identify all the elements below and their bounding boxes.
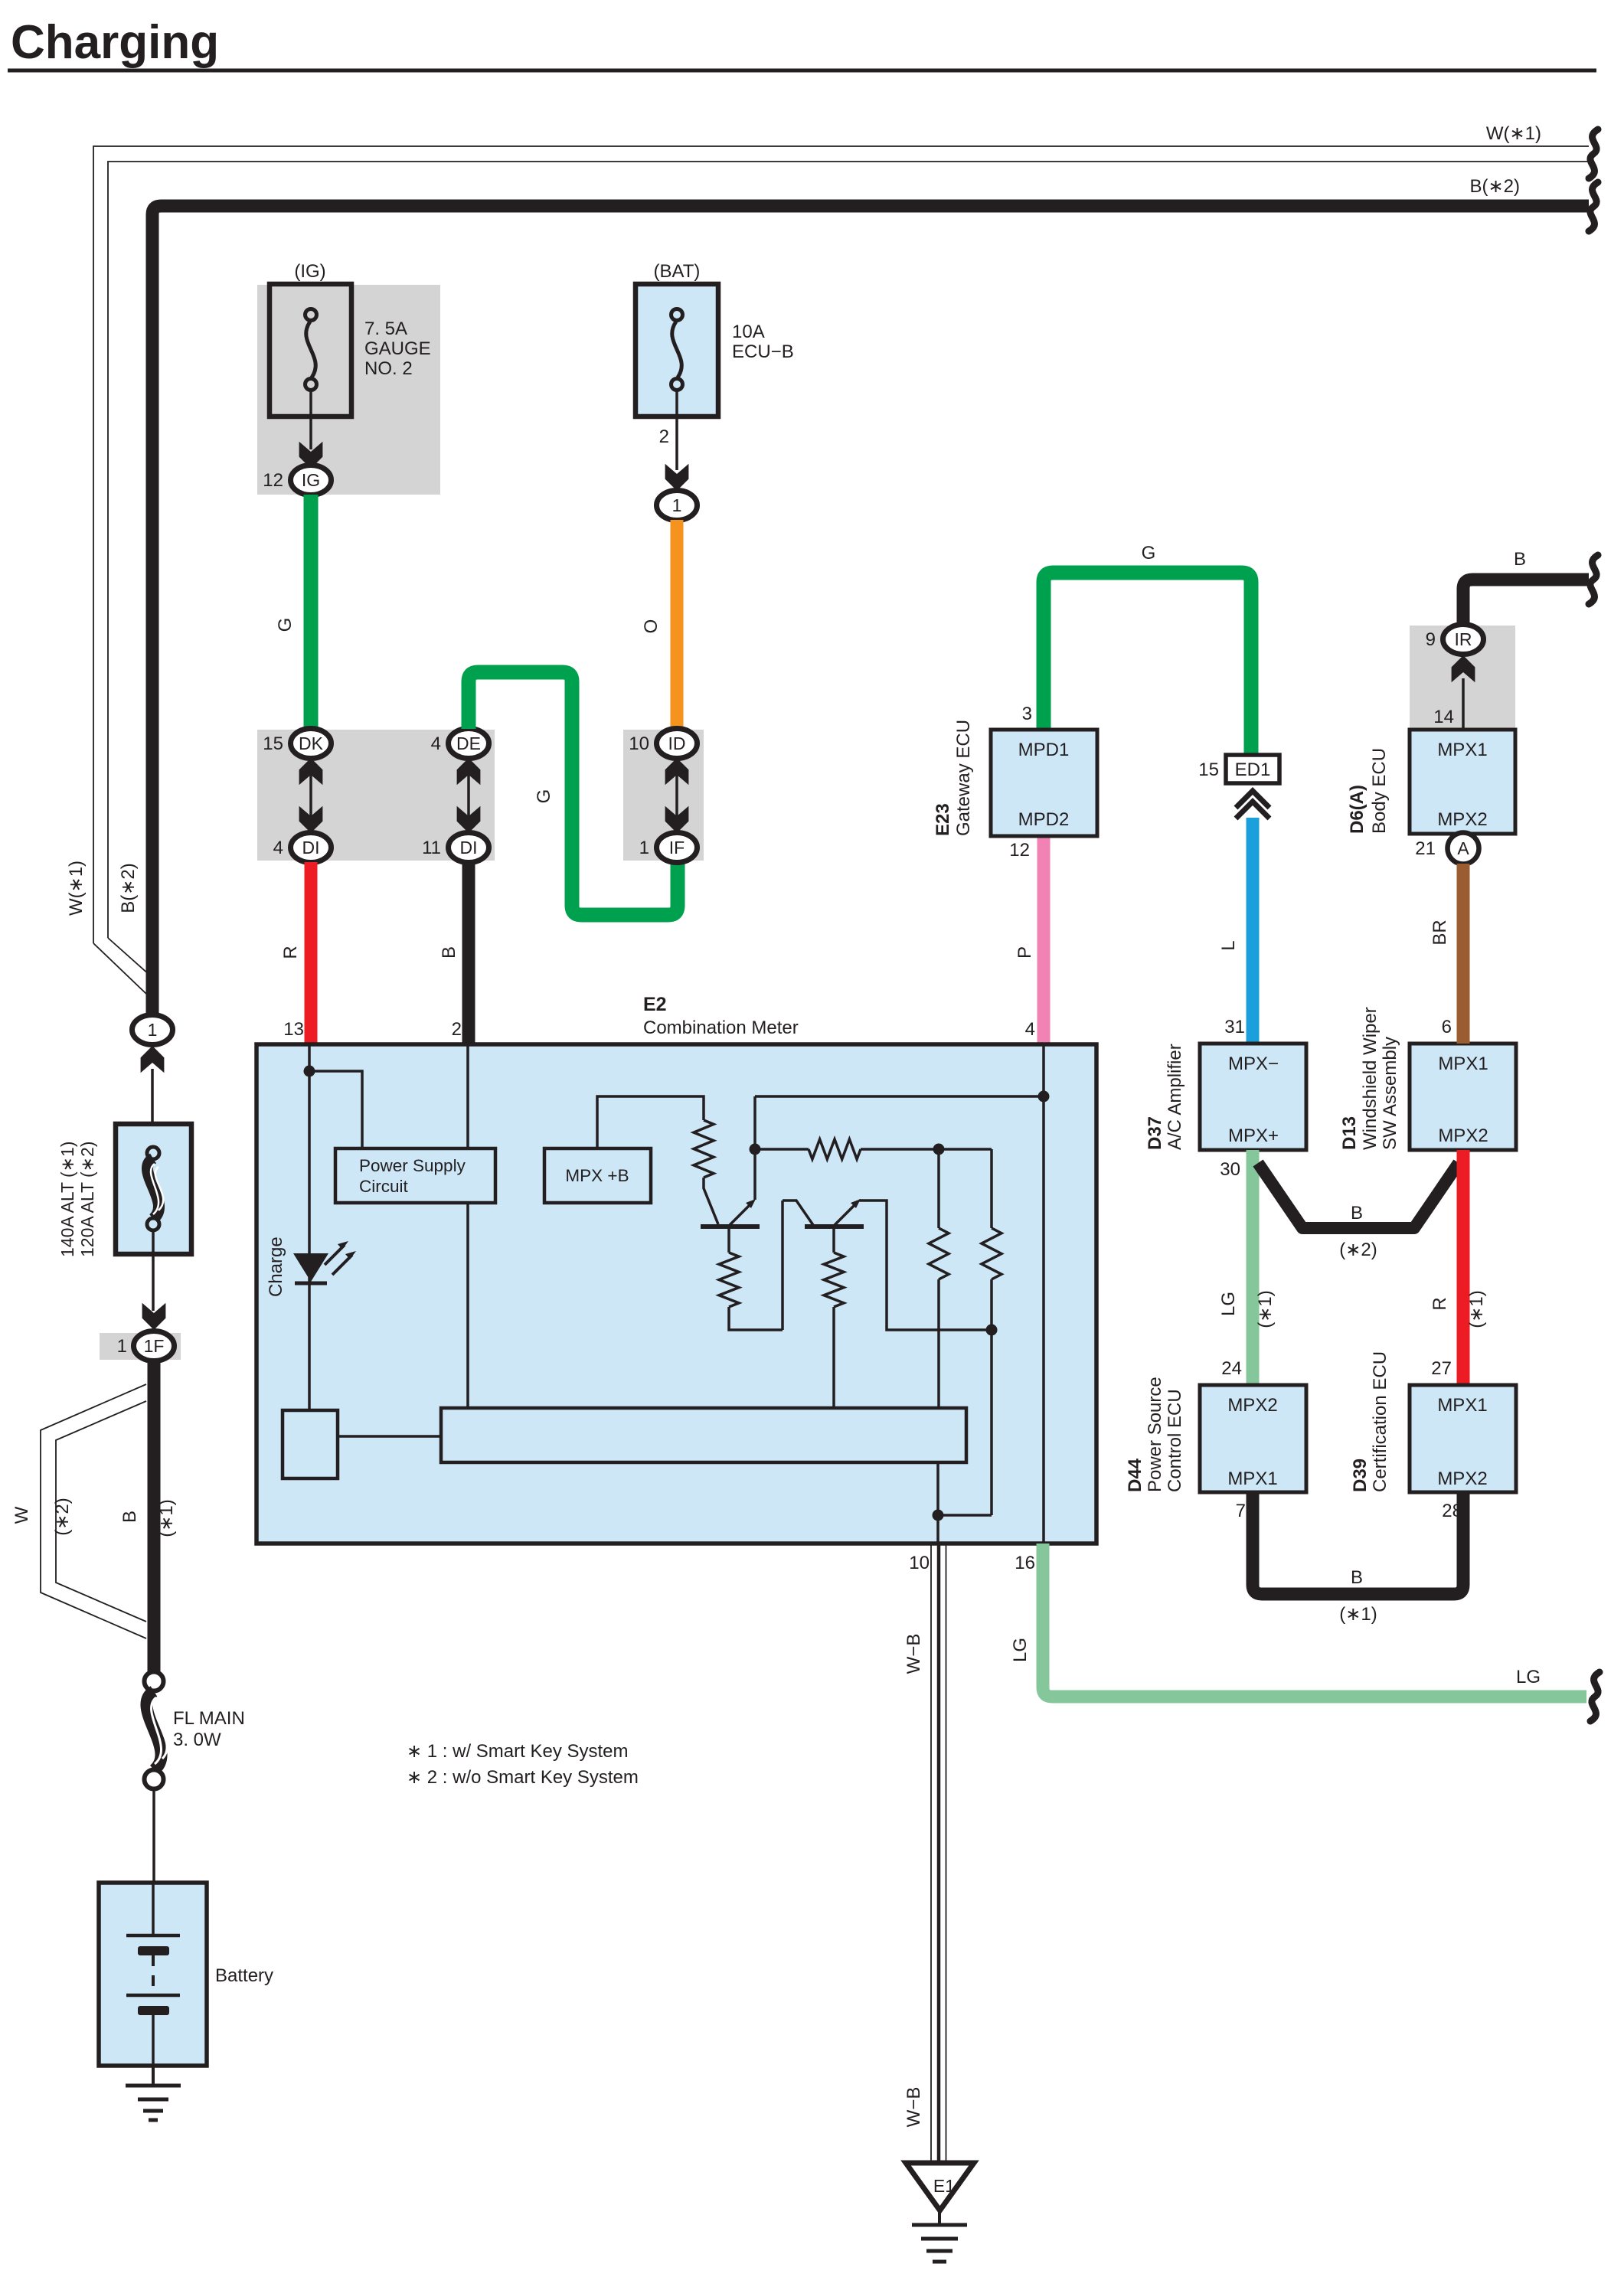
connector 9 IR — [1443, 625, 1484, 655]
battery box — [99, 1883, 207, 2066]
wire R4 to bottom box — [937, 1279, 940, 1408]
wire R red DI to E2 pin13 — [305, 862, 318, 1044]
wire ALT to 1F — [152, 1230, 155, 1311]
gray band 1F connector — [100, 1333, 181, 1360]
gray band ID/IF connector — [623, 730, 704, 861]
svg-text:B: B — [1514, 549, 1526, 570]
resistor R2 — [809, 1139, 861, 1159]
svg-text:NO. 2: NO. 2 — [364, 358, 413, 379]
svg-text:L: L — [1218, 940, 1239, 950]
junction pin10 node — [933, 1510, 944, 1521]
fusible link FL MAIN — [146, 1691, 161, 1770]
battery plate long 2 — [126, 1994, 180, 1998]
svg-text:13: 13 — [283, 1019, 304, 1040]
svg-text:10A: 10A — [732, 322, 765, 342]
wire W(*2) bypass outer — [41, 1384, 146, 1638]
wire B(*1) D44 to D39 — [1253, 1492, 1463, 1594]
svg-text:R: R — [280, 946, 301, 959]
svg-text:Charge: Charge — [266, 1236, 286, 1297]
svg-text:(∗2): (∗2) — [1339, 1240, 1377, 1260]
svg-text:27: 27 — [1431, 1358, 1452, 1379]
break squiggle W(*1) — [1589, 129, 1598, 178]
svg-text:1: 1 — [672, 495, 682, 515]
svg-text:ECU−B: ECU−B — [732, 341, 794, 362]
battery plate long 1 — [126, 1934, 180, 1938]
connector 1 IF — [657, 833, 698, 863]
svg-text:24: 24 — [1221, 1358, 1242, 1379]
switch D13 Windshield Wiper SW box — [1410, 1044, 1516, 1150]
svg-text:15: 15 — [263, 733, 283, 754]
wire node to R5 corner — [939, 1148, 992, 1151]
ground E1 — [906, 2163, 974, 2210]
transistor Q2 emitter — [835, 1203, 857, 1225]
ECU E23 Gateway ECU box — [991, 730, 1097, 836]
wire W(*1) inner line — [108, 162, 1589, 938]
svg-text:30: 30 — [1220, 1159, 1240, 1180]
gray band DK/DE/DI connector — [257, 730, 495, 861]
arrow up DK — [299, 758, 323, 785]
wire E1 to ground — [938, 2210, 941, 2224]
chevron shield lower — [1236, 802, 1269, 818]
svg-text:1: 1 — [148, 1020, 158, 1040]
block Power Supply Circuit — [335, 1148, 495, 1203]
svg-text:W: W — [11, 1506, 32, 1524]
connector circle bottom FL MAIN — [145, 1770, 164, 1789]
ECU D37 A/C Amplifier box — [1200, 1044, 1306, 1150]
svg-text:DI: DI — [460, 838, 478, 858]
svg-text:10: 10 — [909, 1553, 930, 1573]
wire W-B right outline — [946, 1544, 947, 2163]
svg-text:Circuit: Circuit — [359, 1177, 409, 1196]
svg-text:MPD1: MPD1 — [1018, 740, 1070, 760]
gray band IR connector — [1410, 626, 1515, 730]
connector 1 1F — [134, 1331, 175, 1361]
svg-text:MPX2: MPX2 — [1438, 1125, 1488, 1146]
svg-text:(∗1): (∗1) — [1466, 1290, 1487, 1328]
svg-text:SW Assembly: SW Assembly — [1380, 1037, 1400, 1150]
gray band IG fuse area — [257, 285, 440, 495]
svg-text:∗ 2 : w/o Smart Key System: ∗ 2 : w/o Smart Key System — [407, 1767, 639, 1788]
wire W-B left outline — [930, 1544, 932, 2163]
LED arrow 1 — [325, 1245, 345, 1265]
wire P pink E23 to E2 pin4 — [1037, 836, 1051, 1044]
wire pin2 internal — [466, 1044, 469, 1408]
wire B(*2) D37 to D13 — [1258, 1163, 1459, 1228]
connector 21 A — [1448, 833, 1479, 864]
resistor R4 — [929, 1228, 949, 1279]
junction Q1 emitter node — [750, 1144, 761, 1155]
svg-text:B: B — [119, 1511, 140, 1523]
svg-text:LG: LG — [1516, 1667, 1541, 1687]
svg-text:D39: D39 — [1350, 1459, 1371, 1492]
wire B black DI to E2 pin2 — [462, 862, 475, 1044]
junction R2 node — [933, 1144, 945, 1155]
svg-text:G: G — [275, 618, 296, 632]
ECU D44 Power Source Control box — [1200, 1385, 1306, 1492]
svg-text:MPX +B: MPX +B — [565, 1166, 629, 1185]
svg-text:MPX1: MPX1 — [1438, 1054, 1488, 1074]
connector circle top FL MAIN — [145, 1672, 164, 1691]
svg-text:A/C Amplifier: A/C Amplifier — [1165, 1044, 1185, 1150]
wire R2 to node — [861, 1148, 939, 1151]
wire W(*1) merge diagonal outer — [93, 943, 146, 994]
svg-text:Control ECU: Control ECU — [1165, 1389, 1185, 1492]
svg-text:E1: E1 — [933, 2176, 955, 2196]
wire into battery — [152, 1883, 155, 1936]
wire node to R2 — [755, 1148, 809, 1151]
svg-text:LG: LG — [1010, 1638, 1031, 1662]
resistor R5 — [982, 1228, 1002, 1279]
fuse IG element — [306, 309, 317, 321]
resistor R6 Q2 base — [824, 1253, 844, 1307]
break squiggle B(*2) — [1589, 182, 1598, 231]
block MPX +B — [544, 1148, 651, 1203]
wire long box to pin10 — [936, 1462, 939, 1544]
wire small box to long box — [338, 1435, 441, 1438]
wire corner down to R5 — [990, 1149, 993, 1228]
wire B(*2) thick black — [152, 206, 1589, 1018]
svg-text:1: 1 — [639, 838, 649, 858]
wire MPX+B to R1 — [597, 1096, 704, 1148]
arrow up ID — [665, 758, 689, 785]
svg-text:ED1: ED1 — [1235, 760, 1271, 780]
svg-text:21: 21 — [1415, 838, 1436, 859]
svg-text:W(∗1): W(∗1) — [1486, 123, 1541, 144]
svg-text:MPX2: MPX2 — [1227, 1395, 1277, 1416]
svg-text:∗ 1 : w/ Smart Key System: ∗ 1 : w/ Smart Key System — [407, 1741, 629, 1762]
svg-text:Gateway ECU: Gateway ECU — [953, 720, 974, 836]
svg-text:(∗1): (∗1) — [156, 1499, 177, 1537]
wire R5 down — [990, 1279, 993, 1515]
svg-text:DE: DE — [456, 733, 481, 753]
svg-text:B(∗2): B(∗2) — [118, 863, 139, 913]
svg-text:LG: LG — [1218, 1292, 1239, 1316]
svg-text:D37: D37 — [1145, 1116, 1165, 1150]
connector ED1 box — [1226, 755, 1279, 783]
svg-text:IR: IR — [1455, 629, 1472, 649]
svg-text:(∗1): (∗1) — [1255, 1290, 1276, 1328]
svg-text:MPX1: MPX1 — [1227, 1468, 1277, 1489]
alternator ALT box — [116, 1124, 191, 1254]
wire Q1 base down — [727, 1229, 730, 1253]
svg-text:G: G — [534, 789, 554, 804]
arrow up into 1 — [141, 1046, 165, 1073]
svg-text:(∗1): (∗1) — [1339, 1604, 1377, 1625]
wire pin13 internal — [308, 1044, 311, 1410]
wire R6 to bottom box — [832, 1307, 835, 1408]
svg-text:B: B — [1351, 1203, 1363, 1223]
svg-text:G: G — [1142, 543, 1156, 564]
wire pin4 to pin16 internal — [1042, 1044, 1045, 1544]
svg-text:D44: D44 — [1125, 1458, 1145, 1492]
svg-text:E2: E2 — [643, 994, 667, 1015]
svg-text:2: 2 — [452, 1019, 462, 1040]
wire G from IG to DK — [304, 495, 319, 730]
svg-text:11: 11 — [422, 838, 441, 858]
junction R5 rail — [986, 1325, 998, 1336]
ground bar 4 — [933, 2260, 946, 2264]
ground bar 2 — [921, 2237, 958, 2241]
svg-text:MPD2: MPD2 — [1018, 809, 1070, 830]
svg-text:DI: DI — [302, 838, 320, 858]
connector 10 ID — [657, 729, 698, 759]
svg-text:MPX−: MPX− — [1228, 1054, 1279, 1074]
svg-text:140A ALT (∗1): 140A ALT (∗1) — [57, 1142, 77, 1257]
wire top rail — [755, 1095, 1044, 1098]
arrow into 1 — [665, 464, 689, 491]
arrow up IR — [1452, 655, 1475, 682]
svg-text:MPX2: MPX2 — [1437, 809, 1487, 830]
wire LG E2 pin16 to right — [1043, 1544, 1586, 1697]
wire W(*1) outer line — [93, 146, 1589, 943]
svg-text:6: 6 — [1442, 1017, 1452, 1037]
battery ground bar 1 — [126, 2084, 181, 2088]
wire Q1 emitter up — [753, 1149, 756, 1200]
svg-text:4: 4 — [1025, 1019, 1035, 1040]
chevron shield upper — [1236, 791, 1269, 808]
ECU D6(A) Body ECU box — [1410, 730, 1515, 834]
wire B black Body ECU to right — [1463, 580, 1589, 626]
wire ID-IF link — [675, 772, 678, 819]
svg-text:O: O — [641, 619, 662, 634]
fuse 10A ECU-B box — [636, 284, 718, 417]
svg-text:MPX+: MPX+ — [1228, 1125, 1279, 1146]
svg-text:15: 15 — [1198, 760, 1219, 780]
svg-text:Battery: Battery — [215, 1965, 273, 1986]
wire Q2 base down — [832, 1229, 835, 1253]
fuse BAT element — [671, 309, 683, 321]
svg-text:E23: E23 — [933, 803, 953, 836]
svg-text:IF: IF — [669, 838, 685, 858]
svg-text:(∗2): (∗2) — [52, 1498, 73, 1535]
svg-text:BR: BR — [1430, 920, 1450, 945]
svg-text:IG: IG — [302, 470, 320, 490]
wire G E23 to ED1 — [1044, 573, 1251, 755]
arrow into IG — [299, 442, 323, 469]
svg-text:B(∗2): B(∗2) — [1470, 176, 1520, 197]
svg-text:14: 14 — [1433, 707, 1454, 727]
block long bottom — [441, 1408, 966, 1462]
wire B thick 1F to FL MAIN — [148, 1361, 161, 1672]
svg-text:B: B — [1351, 1567, 1363, 1588]
transistor Q1 emitter — [730, 1203, 752, 1225]
svg-text:Charging: Charging — [11, 16, 219, 69]
title underline — [8, 69, 1596, 73]
wire W-B core — [937, 1544, 941, 2163]
wire L blue ED1 to D37 — [1247, 818, 1260, 1044]
wire node down to R4 — [937, 1149, 940, 1228]
svg-text:4: 4 — [273, 838, 283, 858]
wire W(*1) merge diagonal inner — [108, 938, 150, 975]
svg-text:12: 12 — [263, 470, 283, 491]
wire battery to ground — [152, 2066, 155, 2086]
wire connector1 to ALT — [151, 1069, 154, 1153]
svg-text:4: 4 — [431, 733, 441, 754]
wire R3 to Q2 collector branch — [729, 1307, 783, 1330]
junction pin13 — [304, 1066, 315, 1077]
wire LG D37 to D44 — [1247, 1150, 1260, 1385]
wire battery negative — [152, 2015, 155, 2066]
arrow down DI right — [457, 806, 481, 833]
fusible link ALT — [147, 1147, 159, 1159]
svg-text:2: 2 — [659, 426, 669, 447]
wire R red D13 to D39 — [1457, 1150, 1470, 1385]
svg-text:3: 3 — [1022, 704, 1032, 724]
battery plate short 1 — [138, 1946, 169, 1955]
svg-text:GAUGE: GAUGE — [364, 338, 431, 359]
svg-text:DK: DK — [299, 733, 324, 753]
wire node to top rail — [753, 1096, 756, 1149]
wire FL MAIN to battery — [152, 1789, 155, 1883]
wire DK-DI link — [309, 772, 312, 819]
wire DE-DI link — [467, 772, 470, 819]
ground bar 3 — [926, 2249, 953, 2253]
svg-text:7. 5A: 7. 5A — [364, 319, 407, 339]
svg-text:A: A — [1457, 838, 1469, 858]
meter E2 Combination Meter box — [257, 1044, 1096, 1544]
svg-text:P: P — [1015, 946, 1035, 959]
svg-text:(BAT): (BAT) — [654, 261, 701, 282]
resistor R1 — [694, 1120, 714, 1178]
ECU D39 Certification box — [1410, 1385, 1516, 1492]
wire IR to MPX1 — [1462, 678, 1465, 730]
svg-text:W(∗1): W(∗1) — [66, 861, 87, 916]
svg-text:MPX1: MPX1 — [1437, 1395, 1487, 1416]
svg-text:(IG): (IG) — [294, 261, 325, 282]
battery ground bar 2 — [138, 2098, 168, 2102]
wire Q2 emitter to rail — [859, 1201, 992, 1330]
svg-text:9: 9 — [1426, 629, 1436, 650]
svg-text:31: 31 — [1224, 1017, 1245, 1037]
junction top rail to pin4 line — [1038, 1091, 1050, 1103]
transistor Q1 base bar — [701, 1224, 760, 1229]
LED arrow 2 — [332, 1255, 352, 1275]
svg-text:Power Source: Power Source — [1145, 1377, 1165, 1492]
connector 12 IG — [291, 466, 332, 495]
wire BR brown A to D13 — [1457, 864, 1470, 1044]
connector 15 DK — [291, 729, 332, 759]
svg-text:Combination Meter: Combination Meter — [643, 1018, 799, 1038]
ground bar 1 — [912, 2223, 967, 2227]
break squiggle B right — [1589, 555, 1598, 604]
svg-text:FL MAIN: FL MAIN — [173, 1708, 245, 1729]
transistor Q2 base bar — [805, 1224, 864, 1229]
LED cathode bar — [295, 1282, 327, 1285]
LED Charge — [293, 1253, 328, 1282]
wire node to R5 branch — [938, 1514, 992, 1517]
svg-text:W−B: W−B — [903, 1634, 924, 1674]
wire up to Q2 collector — [781, 1201, 784, 1330]
svg-text:B: B — [439, 946, 459, 959]
svg-text:1: 1 — [117, 1336, 127, 1357]
wire fuse IG to connector — [309, 390, 312, 449]
connector 11 DI — [449, 833, 489, 863]
svg-text:D6(A): D6(A) — [1347, 785, 1367, 834]
svg-text:16: 16 — [1015, 1553, 1035, 1573]
battery ground bar 4 — [149, 2118, 158, 2122]
svg-text:120A ALT (∗2): 120A ALT (∗2) — [77, 1142, 97, 1257]
wire O orange to ID — [671, 520, 684, 730]
battery ground bar 3 — [143, 2109, 163, 2113]
svg-text:Certification ECU: Certification ECU — [1370, 1351, 1390, 1492]
arrow up DE — [457, 758, 481, 785]
arrow down IF — [665, 806, 689, 833]
svg-text:Windshield Wiper: Windshield Wiper — [1360, 1007, 1381, 1150]
connector 4 DI — [291, 833, 332, 863]
wire W(*2) bypass inner — [56, 1401, 146, 1622]
connector 4 DE — [449, 729, 489, 759]
fuse 7.5A GAUGE NO.2 box — [270, 284, 351, 417]
svg-text:MPX2: MPX2 — [1437, 1468, 1487, 1489]
svg-text:ID: ID — [668, 733, 686, 753]
svg-text:3. 0W: 3. 0W — [173, 1730, 221, 1750]
svg-text:1F: 1F — [144, 1336, 165, 1356]
wire G loop DE to IF — [469, 672, 678, 915]
arrow down DI left — [299, 806, 323, 833]
svg-text:7: 7 — [1236, 1501, 1246, 1521]
svg-text:MPX1: MPX1 — [1437, 740, 1487, 760]
resistor R3 Q1 base — [719, 1253, 739, 1307]
svg-text:10: 10 — [629, 733, 649, 754]
wire R1 to Q1 collector — [704, 1178, 718, 1224]
svg-text:12: 12 — [1009, 840, 1030, 861]
transistor Q2 collector — [783, 1201, 813, 1225]
wire to power supply circuit — [309, 1071, 362, 1148]
break squiggle LG — [1590, 1672, 1599, 1721]
svg-text:Body ECU: Body ECU — [1369, 748, 1390, 834]
wire fuse BAT to connector 1 — [675, 390, 678, 470]
svg-text:D13: D13 — [1339, 1116, 1360, 1150]
svg-text:Power Supply: Power Supply — [359, 1156, 466, 1175]
connector 1 (BAT) — [657, 491, 698, 521]
connector 1 alternator — [132, 1015, 173, 1045]
battery plate short 2 — [138, 2006, 169, 2015]
svg-text:R: R — [1430, 1297, 1450, 1310]
arrow into 1F — [142, 1303, 166, 1330]
svg-text:W−B: W−B — [903, 2087, 924, 2128]
block small left — [283, 1410, 338, 1478]
